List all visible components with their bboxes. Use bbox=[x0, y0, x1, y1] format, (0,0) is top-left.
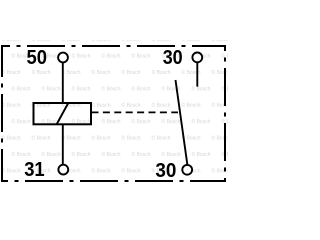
svg-text:30: 30 bbox=[163, 47, 183, 69]
svg-text:30: 30 bbox=[155, 160, 176, 182]
svg-text:31: 31 bbox=[24, 159, 45, 181]
svg-text:50: 50 bbox=[27, 47, 48, 69]
